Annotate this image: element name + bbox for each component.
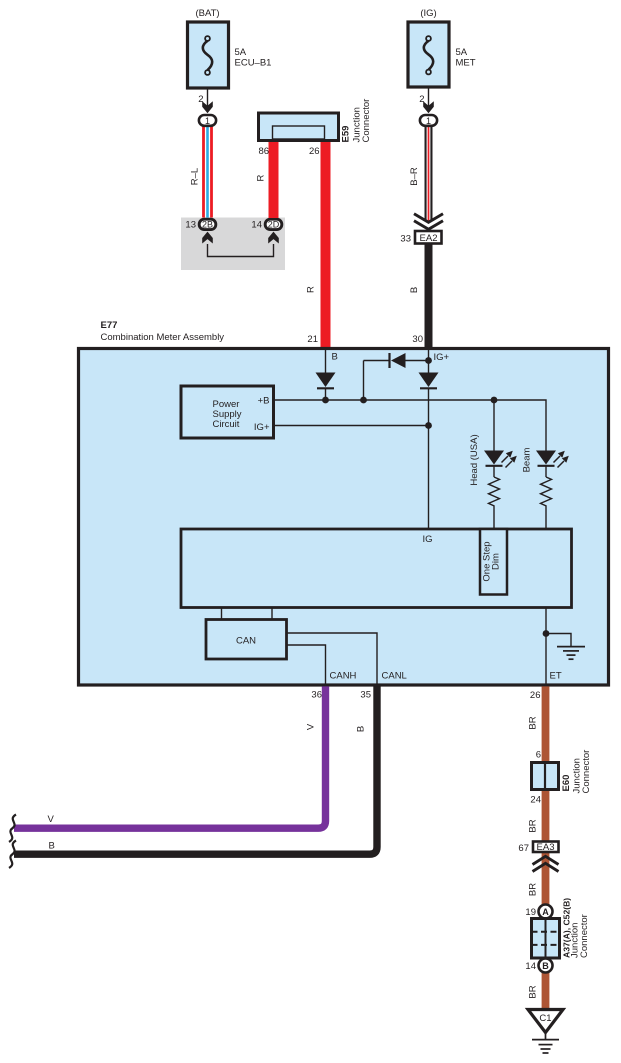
connector oval 1 (BAT) — [199, 115, 216, 126]
svg-text:R–L: R–L — [190, 168, 201, 185]
svg-text:Connector: Connector — [581, 750, 592, 794]
resistor R1 — [489, 477, 500, 529]
node dot ET — [543, 630, 550, 637]
wire from fuse to connector 1 — [207, 88, 209, 112]
node B internal line — [325, 350, 327, 373]
svg-text:BR: BR — [528, 716, 539, 729]
fuse element symbol — [203, 41, 212, 70]
connector oval 2B — [199, 219, 216, 229]
diode D3 (horizontal) — [364, 353, 429, 400]
LED beam — [536, 451, 569, 478]
wire B (CANL) — [14, 686, 377, 854]
svg-text:IG+: IG+ — [254, 422, 270, 433]
svg-text:CAN: CAN — [236, 636, 256, 647]
wire V (CANH) — [14, 686, 326, 828]
svg-text:E60: E60 — [561, 775, 572, 792]
ground connector C1 triangle — [528, 1010, 563, 1033]
junction block gray box — [181, 218, 285, 271]
svg-text:5A: 5A — [235, 47, 247, 58]
node dot IG+/diode — [425, 357, 432, 364]
wire B from EA2 to E77 pin 30 — [425, 245, 433, 350]
arrow under 2D — [268, 232, 279, 244]
LED head (USA) — [484, 451, 517, 478]
CAN box — [206, 620, 287, 660]
svg-text:19: 19 — [525, 907, 536, 918]
svg-text:1: 1 — [205, 116, 210, 126]
connector EA3 box — [533, 842, 559, 853]
svg-text:B: B — [409, 287, 420, 293]
svg-text:+B: +B — [258, 396, 270, 407]
junction connector A37/C52 box — [532, 919, 560, 959]
fuse 5A MET box — [408, 22, 449, 87]
junction connector E60 box — [532, 763, 559, 790]
internal ground — [546, 634, 585, 660]
svg-text:5A: 5A — [456, 47, 468, 58]
svg-text:(BAT): (BAT) — [195, 8, 219, 19]
CAN box stubs — [221, 608, 223, 620]
svg-text:Circuit: Circuit — [213, 419, 240, 430]
wire R from E59 pin 86 to 2D — [269, 139, 279, 218]
head lamp branch wire — [493, 400, 495, 451]
wire R-L — [202, 126, 213, 219]
svg-text:EA3: EA3 — [537, 842, 555, 853]
connector oval 2D — [265, 219, 282, 229]
svg-text:13: 13 — [185, 220, 196, 231]
svg-text:B–R: B–R — [409, 167, 420, 186]
svg-text:B: B — [332, 352, 338, 363]
wire linking 2B to 2D — [208, 244, 274, 257]
svg-text:24: 24 — [530, 795, 541, 806]
svg-text:ECU–B1: ECU–B1 — [235, 58, 272, 69]
svg-text:MET: MET — [456, 58, 476, 69]
connector EA2 box — [415, 231, 442, 244]
wire from fuse to connector 1 — [428, 87, 430, 112]
svg-text:14: 14 — [525, 961, 536, 972]
node dot +B/diode D1 — [322, 397, 329, 404]
svg-text:CANL: CANL — [382, 671, 407, 682]
+B rail wire — [274, 400, 547, 451]
svg-text:86: 86 — [259, 146, 270, 157]
svg-text:BR: BR — [528, 819, 539, 832]
svg-text:Beam: Beam — [522, 448, 533, 473]
svg-text:IG: IG — [423, 534, 433, 545]
svg-text:Connector: Connector — [361, 99, 372, 143]
svg-text:2D: 2D — [268, 220, 280, 230]
svg-text:26: 26 — [530, 690, 541, 701]
svg-text:(IG): (IG) — [420, 8, 436, 19]
arrow into connector 1 — [202, 101, 213, 113]
svg-text:6: 6 — [536, 750, 541, 761]
wire B-R — [425, 126, 433, 221]
svg-text:B: B — [542, 961, 549, 971]
svg-text:Dim: Dim — [491, 553, 502, 570]
one step dim box — [480, 529, 507, 595]
svg-text:2B: 2B — [202, 220, 213, 230]
svg-text:C1: C1 — [539, 1013, 551, 1024]
IG+ rail wire — [274, 425, 429, 427]
svg-text:30: 30 — [412, 334, 423, 345]
junction connector E59 box — [259, 113, 339, 141]
diode D1 (B) — [316, 373, 336, 401]
E77 combination meter assembly box — [79, 349, 609, 686]
svg-text:67: 67 — [518, 843, 529, 854]
svg-text:ET: ET — [550, 671, 562, 682]
fuse 5A ECU-B1 box — [188, 22, 229, 88]
fuse element symbol — [424, 41, 433, 70]
svg-text:Connector: Connector — [579, 914, 590, 958]
chevron arrow into EA2 — [414, 214, 443, 230]
svg-text:EA2: EA2 — [420, 233, 438, 244]
connector circle B — [539, 959, 553, 973]
break symbol V wire — [9, 815, 16, 842]
CANH wire — [287, 645, 326, 685]
svg-text:CANH: CANH — [330, 671, 357, 682]
svg-text:36: 36 — [311, 690, 322, 701]
CANL wire — [287, 633, 378, 685]
connector oval 1 (IG) — [420, 115, 437, 126]
svg-text:26: 26 — [309, 146, 320, 157]
svg-text:B: B — [356, 726, 367, 732]
svg-text:R: R — [256, 174, 267, 181]
svg-text:V: V — [48, 814, 55, 825]
ET wire — [545, 608, 547, 686]
ground symbol C1 — [532, 1033, 559, 1054]
svg-text:1: 1 — [426, 116, 431, 126]
svg-text:B: B — [49, 841, 55, 852]
connector circle A — [539, 905, 553, 919]
svg-text:14: 14 — [251, 220, 262, 231]
svg-text:BR: BR — [528, 985, 539, 998]
main logic box — [181, 529, 572, 608]
svg-text:Head (USA): Head (USA) — [469, 434, 480, 485]
arrow into connector 1 — [423, 101, 434, 113]
node dot IG+ rail — [425, 422, 432, 429]
svg-text:V: V — [306, 723, 317, 730]
svg-text:21: 21 — [307, 334, 318, 345]
break symbol B wire — [9, 841, 16, 868]
arrow under 2B — [202, 232, 213, 244]
svg-text:A: A — [542, 907, 549, 917]
svg-text:Combination Meter Assembly: Combination Meter Assembly — [101, 332, 225, 343]
power supply circuit box — [181, 386, 274, 438]
svg-text:35: 35 — [360, 690, 371, 701]
wire R from E59 pin 26 to E77 pin 21 — [321, 139, 331, 349]
svg-text:BR: BR — [528, 883, 539, 896]
node dot +B/head lamp branch — [491, 397, 498, 404]
resistor R2 — [541, 477, 552, 529]
node IG+ internal line — [428, 350, 430, 373]
svg-text:E77: E77 — [101, 320, 118, 331]
chevron arrow out of EA3 — [533, 856, 559, 871]
node dot +B/diode D3 — [360, 397, 367, 404]
svg-text:IG+: IG+ — [434, 352, 450, 363]
diode D2 (IG+) — [419, 373, 439, 530]
svg-text:R: R — [306, 286, 317, 293]
wire BR (ET) — [542, 686, 550, 1010]
svg-text:E59: E59 — [341, 126, 352, 143]
svg-text:33: 33 — [400, 234, 411, 245]
